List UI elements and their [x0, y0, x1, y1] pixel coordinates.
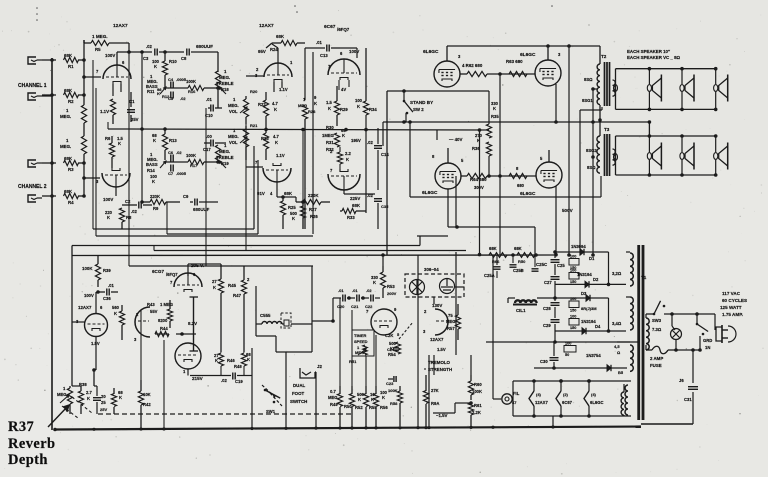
- svg-text:68K: 68K: [284, 191, 293, 196]
- svg-text:R4: R4: [68, 200, 74, 205]
- svg-text:R29: R29: [340, 107, 348, 112]
- svg-text:125 WATT: 125 WATT: [720, 305, 742, 310]
- svg-text:R48: R48: [234, 364, 242, 369]
- svg-text:6L6GC: 6L6GC: [422, 190, 438, 196]
- svg-text:R9: R9: [153, 206, 159, 211]
- svg-text:C30: C30: [540, 359, 548, 364]
- svg-text:EACH SPEAKER VC _ 8Ω: EACH SPEAKER VC _ 8Ω: [627, 55, 681, 60]
- svg-text:100: 100: [570, 315, 576, 319]
- svg-text:K: K: [154, 64, 157, 69]
- svg-text:C19: C19: [235, 379, 243, 384]
- svg-text:R66: R66: [492, 259, 500, 264]
- svg-text:R54: R54: [388, 352, 396, 357]
- svg-text:MEG.: MEG.: [228, 134, 239, 139]
- svg-text:100V: 100V: [105, 53, 115, 58]
- svg-text:1.1V: 1.1V: [276, 153, 285, 158]
- svg-text:8.2V: 8.2V: [188, 321, 197, 326]
- svg-text:.02: .02: [176, 150, 182, 155]
- svg-text:R1: R1: [68, 64, 74, 69]
- svg-text:K: K: [247, 357, 250, 362]
- svg-text:25V: 25V: [131, 117, 139, 122]
- svg-text:2.7: 2.7: [86, 390, 92, 395]
- svg-text:R42: R42: [143, 402, 151, 407]
- svg-text:/6FQ7: /6FQ7: [166, 272, 178, 277]
- svg-text:500V: 500V: [562, 208, 574, 213]
- svg-text:Depth: Depth: [8, 452, 48, 468]
- svg-text:2 AMP: 2 AMP: [650, 356, 663, 361]
- svg-text:C13: C13: [320, 53, 328, 58]
- svg-text:K: K: [153, 138, 156, 143]
- svg-text:MEG.: MEG.: [60, 114, 71, 119]
- svg-text:D4: D4: [595, 324, 601, 329]
- svg-text:C1: C1: [129, 99, 135, 104]
- svg-text:R9A: R9A: [431, 401, 439, 406]
- svg-text:C35: C35: [381, 204, 389, 209]
- svg-text:T3: T3: [604, 127, 610, 132]
- svg-text:K: K: [292, 216, 295, 221]
- svg-text:1 MEG.: 1 MEG.: [92, 34, 108, 39]
- svg-text:C5: C5: [168, 96, 174, 101]
- svg-text:100V: 100V: [349, 49, 359, 54]
- svg-text:8SΩ: 8SΩ: [584, 77, 593, 82]
- svg-text:BASS: BASS: [146, 162, 158, 167]
- svg-text:K: K: [114, 311, 117, 316]
- svg-text:68K: 68K: [64, 53, 73, 58]
- svg-text:8R(J)3M: 8R(J)3M: [581, 306, 597, 311]
- svg-text:4 R62 680: 4 R62 680: [462, 63, 483, 68]
- svg-text:K: K: [328, 106, 331, 111]
- svg-text:68K: 68K: [489, 246, 497, 251]
- svg-text:TREBLE: TREBLE: [216, 155, 234, 160]
- svg-text:C2: C2: [125, 199, 131, 204]
- svg-text:68K: 68K: [514, 246, 522, 251]
- svg-text:K: K: [215, 358, 218, 363]
- svg-text:R51: R51: [349, 359, 357, 364]
- svg-text:FOOT: FOOT: [292, 391, 305, 396]
- svg-text:4.7: 4.7: [272, 101, 278, 106]
- svg-text:K: K: [358, 397, 361, 402]
- svg-text:68K: 68K: [64, 88, 73, 93]
- svg-text:R50: R50: [518, 259, 526, 264]
- svg-text:K: K: [314, 101, 317, 106]
- svg-text:1N3094: 1N3094: [571, 244, 586, 249]
- svg-text:R52: R52: [355, 405, 363, 410]
- svg-text:C6: C6: [168, 150, 174, 155]
- svg-text:C9: C9: [183, 194, 189, 199]
- svg-text:R26: R26: [310, 214, 318, 219]
- svg-text:C555: C555: [260, 313, 271, 318]
- svg-text:C14: C14: [381, 152, 389, 157]
- svg-text:680UUF: 680UUF: [196, 44, 213, 49]
- svg-text:R25: R25: [288, 205, 296, 210]
- svg-text:D2: D2: [593, 277, 599, 282]
- svg-text:TREBLE: TREBLE: [216, 81, 234, 86]
- svg-text:100K: 100K: [186, 153, 196, 158]
- svg-text:1N3754: 1N3754: [586, 353, 601, 358]
- svg-text:68K: 68K: [64, 156, 73, 161]
- svg-text:VOL: VOL: [229, 140, 238, 145]
- svg-text:B5: B5: [618, 370, 624, 375]
- svg-text:/6FQ7: /6FQ7: [337, 27, 350, 32]
- svg-text:6C67: 6C67: [324, 24, 336, 30]
- svg-text:SW 2: SW 2: [413, 107, 424, 112]
- svg-text:(2): (2): [563, 392, 569, 397]
- svg-text:R2: R2: [68, 99, 74, 104]
- svg-text:— 40V: — 40V: [449, 137, 462, 142]
- svg-text:100V: 100V: [84, 293, 94, 298]
- svg-text:25: 25: [101, 400, 106, 405]
- svg-text:K: K: [157, 91, 160, 96]
- svg-text:MEG.: MEG.: [228, 103, 239, 108]
- svg-text:K: K: [107, 215, 110, 220]
- svg-text:1.1V: 1.1V: [100, 109, 109, 114]
- svg-text:6CG7: 6CG7: [152, 269, 164, 274]
- svg-text:60 CYCLES: 60 CYCLES: [722, 298, 747, 303]
- svg-text:3,4Ω: 3,4Ω: [612, 321, 622, 326]
- svg-text:4V: 4V: [341, 87, 346, 92]
- svg-text:R56: R56: [380, 405, 388, 410]
- svg-text:SPEED: SPEED: [354, 339, 368, 344]
- svg-text:12AX7: 12AX7: [535, 400, 548, 405]
- svg-text:C4: C4: [168, 77, 174, 82]
- svg-text:8SG2: 8SG2: [586, 148, 597, 153]
- svg-text:100V: 100V: [103, 197, 113, 202]
- svg-text:R28: R28: [308, 109, 316, 114]
- svg-text:R13: R13: [169, 138, 177, 143]
- svg-text:R11: R11: [147, 89, 155, 94]
- svg-text:C23: C23: [386, 381, 394, 386]
- svg-text:VOL: VOL: [229, 109, 238, 114]
- svg-text:100K: 100K: [186, 79, 196, 84]
- svg-text:R46: R46: [227, 358, 235, 363]
- svg-text:MEG: MEG: [57, 392, 67, 397]
- svg-text:R34: R34: [369, 107, 377, 112]
- svg-text:FIL: FIL: [513, 391, 520, 396]
- svg-text:T2: T2: [601, 54, 607, 59]
- svg-text:100: 100: [570, 255, 576, 259]
- svg-text:R20: R20: [250, 89, 258, 94]
- svg-text:R10: R10: [169, 59, 177, 64]
- svg-text:306–04: 306–04: [424, 267, 439, 272]
- svg-text:47: 47: [512, 400, 517, 405]
- svg-text:C21: C21: [351, 304, 359, 309]
- svg-text:K: K: [357, 104, 360, 109]
- svg-text:55V: 55V: [150, 309, 158, 314]
- svg-text:R39: R39: [103, 268, 111, 273]
- svg-text:R33: R33: [347, 215, 355, 220]
- svg-text:MEG: MEG: [446, 319, 456, 324]
- svg-text:68K: 68K: [352, 203, 361, 208]
- svg-text:8SΩ: 8SΩ: [587, 165, 596, 170]
- svg-text:–1.5V: –1.5V: [436, 413, 448, 418]
- svg-text:.0005: .0005: [176, 171, 187, 176]
- svg-text:K: K: [118, 141, 121, 146]
- svg-text:12AX7: 12AX7: [78, 305, 92, 310]
- svg-text:.02: .02: [221, 378, 227, 383]
- svg-text:D1: D1: [589, 256, 595, 261]
- svg-text:.02: .02: [366, 288, 372, 293]
- svg-text:MEG: MEG: [328, 395, 338, 400]
- svg-text:220K: 220K: [150, 194, 160, 199]
- svg-text:680UUF: 680UUF: [193, 207, 210, 212]
- svg-text:.01: .01: [206, 97, 212, 102]
- svg-text:.01: .01: [316, 40, 322, 45]
- svg-text:100: 100: [570, 297, 576, 301]
- svg-text:3,2Ω: 3,2Ω: [612, 271, 622, 276]
- svg-text:R14: R14: [147, 168, 155, 173]
- svg-text:TIMER: TIMER: [354, 333, 367, 338]
- svg-text:C2K: C2K: [385, 333, 393, 338]
- svg-text:GRD: GRD: [703, 338, 712, 343]
- svg-text:4.7: 4.7: [273, 134, 279, 139]
- svg-text:200V: 200V: [387, 291, 397, 296]
- svg-text:6C67: 6C67: [562, 400, 573, 405]
- svg-text:K: K: [274, 107, 277, 112]
- svg-text:R37: R37: [8, 419, 34, 435]
- svg-text:R44: R44: [160, 326, 168, 331]
- svg-text:6L6GC: 6L6GC: [423, 49, 439, 55]
- svg-text:STAND BY: STAND BY: [410, 100, 433, 105]
- svg-text:27K: 27K: [431, 388, 439, 393]
- svg-text:27: 27: [212, 279, 217, 284]
- svg-text:0.7: 0.7: [330, 389, 336, 394]
- svg-text:T1: T1: [641, 275, 647, 280]
- svg-text:1N: 1N: [705, 345, 710, 350]
- svg-text:150: 150: [570, 280, 576, 284]
- svg-text:R61: R61: [474, 403, 482, 408]
- svg-text:.02: .02: [131, 209, 137, 214]
- svg-text:560: 560: [112, 305, 120, 310]
- svg-text:7.3Ω: 7.3Ω: [652, 327, 662, 332]
- svg-text:C7: C7: [168, 171, 174, 176]
- svg-text:1MEG: 1MEG: [322, 133, 334, 138]
- svg-text:195V: 195V: [351, 138, 361, 143]
- svg-text:1.1V: 1.1V: [279, 87, 288, 92]
- svg-text:50: 50: [565, 353, 569, 357]
- svg-text:1.5: 1.5: [326, 100, 332, 105]
- svg-text:.02: .02: [146, 44, 152, 49]
- svg-text:K: K: [373, 280, 376, 285]
- svg-text:.00: .00: [206, 134, 212, 139]
- svg-text:C25B: C25B: [513, 268, 524, 273]
- svg-text:C28: C28: [543, 306, 551, 311]
- svg-text:220K: 220K: [308, 193, 319, 198]
- svg-text:K: K: [152, 179, 155, 184]
- svg-text:C25A: C25A: [484, 273, 495, 278]
- svg-text:215V: 215V: [192, 376, 204, 381]
- svg-text:R31: R31: [326, 140, 334, 145]
- svg-text:CHANNEL 2: CHANNEL 2: [18, 184, 47, 190]
- svg-text:12AX7: 12AX7: [430, 337, 444, 342]
- svg-text:SW1: SW1: [266, 409, 276, 414]
- svg-text:C3: C3: [143, 56, 149, 61]
- svg-text:R3: R3: [68, 167, 74, 172]
- svg-text:68K: 68K: [64, 189, 73, 194]
- svg-text:R58: R58: [390, 401, 398, 406]
- svg-text:C29: C29: [543, 323, 551, 328]
- svg-text:680: 680: [517, 183, 525, 188]
- svg-text:117 VAC: 117 VAC: [722, 291, 741, 296]
- svg-text:R50: R50: [344, 404, 352, 409]
- svg-text:150: 150: [570, 326, 576, 330]
- svg-text:C20: C20: [337, 304, 345, 309]
- svg-text:C25C: C25C: [536, 262, 548, 267]
- svg-text:C17: C17: [203, 147, 211, 152]
- svg-text:68K: 68K: [276, 34, 285, 39]
- svg-text:8200: 8200: [158, 318, 168, 323]
- svg-text:C25: C25: [557, 263, 565, 268]
- svg-text:100K: 100K: [388, 388, 398, 393]
- svg-text:R53: R53: [387, 284, 395, 289]
- svg-text:CHANNEL 1: CHANNEL 1: [18, 83, 47, 89]
- svg-text:.01: .01: [338, 288, 344, 293]
- svg-text:6L6GC: 6L6GC: [520, 191, 536, 197]
- svg-text:100: 100: [355, 98, 363, 103]
- svg-text:100: 100: [570, 269, 576, 273]
- svg-text:K: K: [382, 395, 385, 400]
- svg-text:K: K: [275, 140, 278, 145]
- svg-text:150: 150: [570, 309, 576, 313]
- svg-text:(4): (4): [591, 392, 597, 397]
- svg-text:1.75 AMP.: 1.75 AMP.: [722, 312, 743, 317]
- svg-text:12AX7: 12AX7: [113, 23, 128, 29]
- svg-text:FUSE: FUSE: [650, 363, 662, 368]
- svg-text:C27: C27: [544, 280, 552, 285]
- svg-text:225V: 225V: [350, 196, 360, 201]
- svg-text:K: K: [87, 396, 90, 401]
- svg-text:EACH SPEAKER 10″: EACH SPEAKER 10″: [627, 49, 671, 54]
- svg-text:Reverb: Reverb: [8, 436, 56, 452]
- svg-text:6L6GC: 6L6GC: [590, 400, 604, 405]
- svg-text:K: K: [346, 157, 349, 162]
- svg-text:20: 20: [101, 394, 106, 399]
- svg-text:100K: 100K: [82, 266, 93, 271]
- svg-text:K: K: [213, 285, 216, 290]
- svg-text:K: K: [342, 133, 345, 138]
- svg-text:R45: R45: [228, 283, 237, 288]
- svg-text:R35: R35: [491, 114, 499, 119]
- svg-text:25V: 25V: [100, 407, 107, 412]
- svg-text:C36: C36: [103, 296, 111, 301]
- svg-text:SW3: SW3: [652, 318, 662, 323]
- svg-text:K: K: [493, 106, 496, 111]
- svg-text:.02: .02: [367, 140, 373, 145]
- svg-text:MEG.: MEG.: [60, 144, 71, 149]
- svg-text:R57: R57: [447, 326, 455, 331]
- svg-text:C31: C31: [684, 397, 692, 402]
- svg-text:TREMOLO: TREMOLO: [428, 360, 451, 365]
- svg-text:75: 75: [448, 313, 453, 318]
- svg-text:R63 680: R63 680: [506, 59, 523, 64]
- svg-text:R6: R6: [105, 136, 111, 141]
- svg-text:R60: R60: [474, 382, 482, 387]
- svg-text:K: K: [119, 395, 122, 400]
- svg-text:R43: R43: [147, 302, 155, 307]
- svg-text:8SG1: 8SG1: [582, 98, 593, 103]
- svg-text:(4): (4): [536, 392, 542, 397]
- svg-text:SWITCH: SWITCH: [290, 399, 307, 404]
- svg-text:.02: .02: [180, 96, 186, 101]
- svg-text:CIL1: CIL1: [516, 308, 526, 313]
- svg-text:95V: 95V: [258, 49, 266, 54]
- svg-text:C8: C8: [181, 56, 187, 61]
- svg-text:.01: .01: [108, 283, 114, 288]
- svg-text:R47: R47: [233, 293, 242, 298]
- svg-text:12AX7: 12AX7: [259, 23, 274, 29]
- svg-text:STRENGTH: STRENGTH: [428, 367, 452, 372]
- svg-text:J6: J6: [679, 378, 684, 383]
- svg-text:J2: J2: [317, 364, 322, 369]
- svg-text:100: 100: [565, 342, 571, 346]
- svg-text:R21: R21: [250, 123, 258, 128]
- svg-text:1.5V: 1.5V: [437, 347, 446, 352]
- svg-text:2.2: 2.2: [345, 151, 351, 156]
- svg-text:6L6GC: 6L6GC: [520, 52, 536, 58]
- svg-text:1 MEG: 1 MEG: [160, 302, 173, 307]
- svg-text:.01: .01: [352, 288, 358, 293]
- svg-text:4,5: 4,5: [614, 344, 620, 349]
- svg-text:R5: R5: [95, 47, 101, 52]
- svg-text:DUAL: DUAL: [293, 383, 306, 388]
